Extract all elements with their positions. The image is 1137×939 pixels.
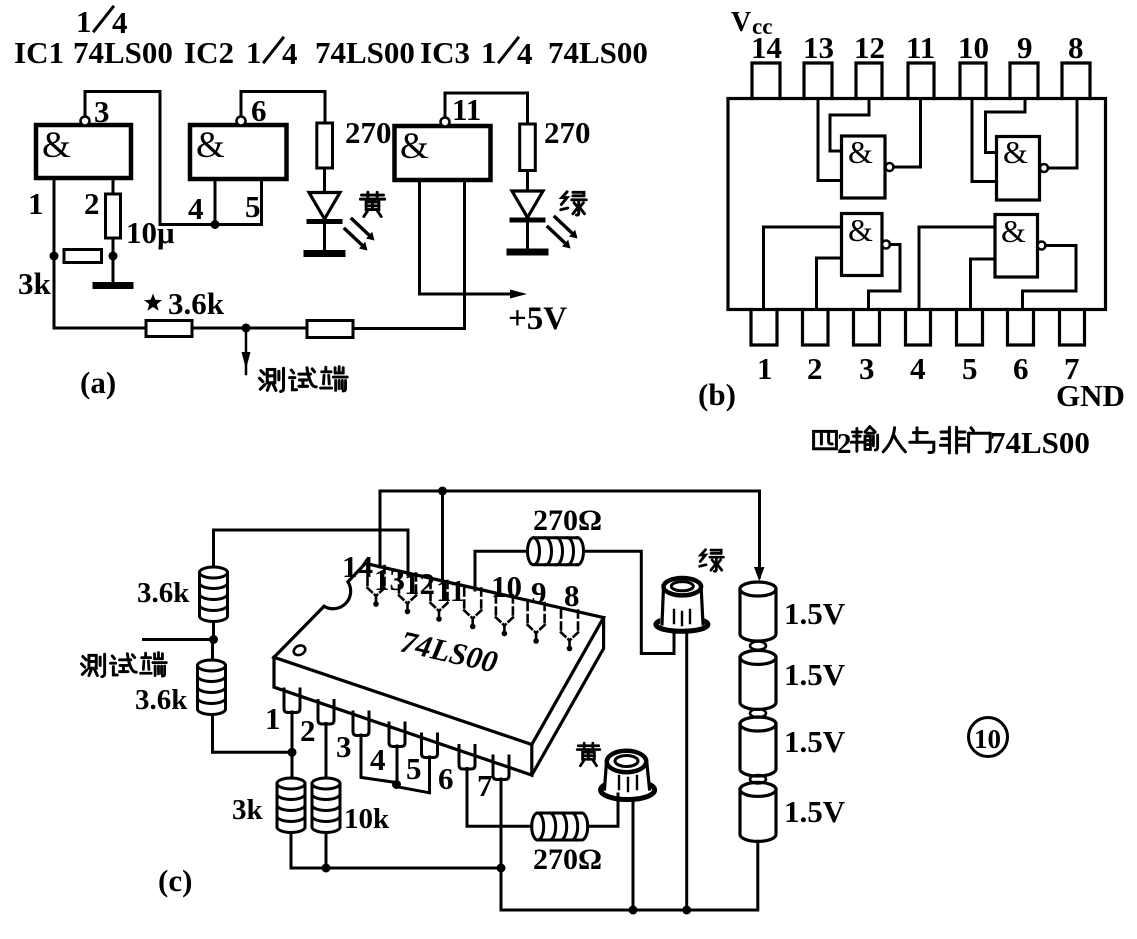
svg-text:2: 2: [807, 351, 823, 386]
svg-text:14: 14: [751, 30, 782, 65]
svg-text:V: V: [731, 7, 751, 38]
wire 270 to yellow LED: [588, 794, 618, 826]
svg-text:2: 2: [300, 713, 316, 748]
wire 270 to pin11: [475, 551, 528, 590]
svg-text:1: 1: [481, 35, 497, 70]
wire IC3 pin to +5V: [420, 180, 513, 294]
LED light arrows: [352, 219, 370, 236]
wire IC2 output pin6: [241, 92, 325, 124]
capacitor 10u body: [106, 194, 121, 238]
wire pin7 to ground bus: [500, 779, 503, 910]
label lv green: [561, 192, 587, 215]
wire pin9 in: [986, 99, 1026, 153]
wire IC3 output pin11: [445, 93, 528, 124]
wire pin2 in: [817, 258, 842, 310]
svg-text:&: &: [196, 125, 225, 166]
svg-text:(a): (a): [80, 365, 116, 400]
wire to pin13 from 3.6k: [214, 530, 409, 575]
svg-text:4: 4: [370, 742, 386, 777]
chip 74LS00 3D body: [274, 563, 604, 744]
svg-text:1.5V: 1.5V: [784, 794, 846, 829]
svg-text:GND: GND: [1056, 378, 1125, 413]
wire 270 to green LED: [584, 551, 674, 653]
node test terminal: [242, 324, 251, 333]
caption si 2 shuru yufeimen 74LS00: [814, 431, 837, 448]
wire pins 4,5 tied: [160, 179, 262, 225]
battery nubs: [750, 642, 766, 650]
pin 8 stub: [1062, 63, 1090, 99]
svg-text:3.6k: 3.6k: [135, 684, 188, 716]
wire pin1 IC1: [53, 178, 56, 328]
svg-text:1.5V: 1.5V: [784, 724, 846, 759]
svg-text:1: 1: [246, 35, 262, 70]
label huang yellow: [360, 192, 384, 216]
svg-text:2: 2: [84, 186, 100, 221]
LED light arrows: [555, 217, 573, 234]
svg-text:12: 12: [404, 566, 435, 601]
resistor 270ohm yellow branch: [532, 813, 588, 840]
svg-text:4: 4: [910, 351, 926, 386]
wire out to pin11: [894, 99, 921, 168]
bottom pin 6: [459, 746, 475, 770]
resistor 270ohm green branch: [528, 538, 584, 565]
bottom pin 4: [389, 723, 405, 747]
svg-text:8: 8: [1068, 30, 1084, 65]
svg-text:3.6k: 3.6k: [137, 577, 190, 609]
pin 10 stub: [960, 63, 986, 99]
pin 3 stub: [854, 310, 880, 346]
top pin 13: [399, 574, 416, 615]
svg-text:5: 5: [962, 351, 978, 386]
pin 5 stub: [957, 310, 983, 346]
pin 12 stub: [856, 63, 882, 99]
wire to pin12: [441, 491, 444, 582]
svg-text:270Ω: 270Ω: [533, 504, 602, 537]
svg-text:10k: 10k: [344, 803, 390, 835]
svg-text:1.5V: 1.5V: [784, 657, 846, 692]
wire pin1 in: [764, 227, 842, 310]
wire pin2 to 10k: [325, 724, 328, 779]
svg-text:270Ω: 270Ω: [533, 843, 602, 876]
gate IC2: [190, 125, 287, 179]
wire to IC3 pin: [353, 180, 465, 329]
svg-text:2: 2: [837, 428, 852, 460]
label lv green: [700, 550, 724, 572]
resistor 3.6k upper: [200, 567, 228, 622]
label ceshiduan (c): [81, 654, 104, 676]
svg-text:+5V: +5V: [508, 301, 567, 337]
svg-text:74LS00: 74LS00: [315, 35, 415, 70]
resistor 270 (yellow branch): [317, 123, 333, 168]
svg-text:11: 11: [906, 30, 935, 65]
wire out to pin3: [869, 245, 901, 310]
svg-text:6: 6: [251, 93, 267, 128]
svg-text:11: 11: [452, 92, 481, 127]
wire bottom rail: [54, 327, 146, 330]
svg-text:74LS00: 74LS00: [73, 35, 173, 70]
pin 4 stub: [906, 310, 931, 346]
svg-text:13: 13: [374, 562, 405, 597]
svg-text:74LS00: 74LS00: [990, 425, 1090, 460]
wire 3k/10k bottoms to bus: [291, 833, 501, 869]
svg-text:1.5V: 1.5V: [784, 596, 846, 631]
svg-text:3.6k: 3.6k: [168, 286, 225, 321]
svg-text:74LS00: 74LS00: [548, 35, 648, 70]
svg-text:1: 1: [76, 4, 92, 39]
wire pins 3-4-5 tied: [361, 735, 430, 793]
svg-text:3k: 3k: [18, 266, 52, 301]
wire to test node: [192, 327, 307, 330]
resistor 3k: [277, 778, 305, 833]
gate IC3: [395, 126, 491, 180]
svg-text:&: &: [848, 134, 873, 170]
wire out to pin8: [1048, 99, 1077, 169]
svg-text:5: 5: [245, 189, 261, 224]
wire pin4 in: [919, 227, 995, 310]
figure number 10 circled: [969, 718, 1008, 757]
LED green 3D: [656, 618, 708, 632]
top pin 8: [561, 611, 578, 652]
ground under green LED: [510, 249, 545, 256]
gate U1 (12,13 to 11): [842, 136, 886, 198]
chip pin1 dot o: [292, 644, 307, 657]
svg-text:3: 3: [336, 729, 352, 764]
svg-text:4: 4: [282, 36, 298, 71]
ground under yellow LED: [307, 250, 342, 257]
svg-text:7: 7: [477, 768, 493, 803]
svg-text:1: 1: [265, 701, 281, 736]
bottom pin 7: [493, 756, 509, 780]
svg-text:9: 9: [531, 575, 547, 610]
svg-text:10: 10: [958, 30, 989, 65]
wire pin2 IC1: [112, 178, 115, 194]
top pin 11: [464, 589, 481, 630]
wire IC1 output pin3 to top: [85, 92, 160, 225]
svg-text:1: 1: [28, 186, 44, 221]
battery cell 4: [740, 782, 776, 841]
svg-text:11: 11: [436, 573, 465, 608]
wire pin13 in: [818, 99, 842, 181]
pin 1 stub: [751, 310, 777, 346]
svg-text:(c): (c): [158, 863, 192, 898]
svg-text:&: &: [42, 125, 71, 166]
resistor 10k: [312, 778, 340, 833]
resistor 3.6k (starred): [146, 321, 192, 337]
svg-text:4: 4: [517, 36, 533, 71]
bubble IC3 out: [441, 118, 450, 127]
wire pin10 in: [972, 99, 997, 182]
node on top bus: [438, 487, 447, 496]
pin 9 stub: [1010, 63, 1038, 99]
label huang yellow: [577, 743, 600, 766]
battery cell 1: [740, 582, 776, 641]
svg-text:10μ: 10μ: [126, 215, 175, 250]
node junction right: [109, 252, 118, 261]
bottom pin 5: [422, 734, 438, 758]
LED yellow: [309, 193, 340, 220]
svg-text:(b): (b): [698, 377, 736, 412]
top pin 12: [431, 581, 448, 622]
svg-text:5: 5: [406, 751, 422, 786]
bottom pin 3: [353, 712, 369, 736]
svg-text:13: 13: [803, 30, 834, 65]
wire pin12 in: [830, 99, 869, 152]
ground under IC1: [112, 256, 115, 284]
top pin 14: [368, 566, 385, 607]
svg-text:IC3: IC3: [420, 35, 470, 70]
svg-text:270: 270: [544, 115, 591, 150]
svg-text:10: 10: [974, 724, 1001, 754]
bottom pin 2: [318, 701, 334, 725]
svg-text:&: &: [400, 126, 429, 167]
svg-text:&: &: [1001, 213, 1026, 249]
svg-text:74LS00: 74LS00: [397, 624, 501, 680]
svg-text:&: &: [1003, 134, 1028, 170]
pin 11 stub: [908, 63, 934, 99]
svg-text:14: 14: [342, 549, 373, 584]
svg-text:270: 270: [345, 115, 392, 150]
top pin 9: [528, 603, 545, 644]
wire battery bottom to ground bus: [501, 841, 758, 910]
svg-text:3: 3: [94, 94, 110, 129]
node junction left: [50, 252, 59, 261]
wire battery top lead: [758, 491, 761, 577]
label ceshiduan (a): [259, 368, 283, 391]
gate U3 (1,2 to 3): [842, 214, 883, 276]
svg-text:&: &: [848, 212, 873, 248]
IC body DIP14: [728, 99, 1106, 310]
pin 7 stub: [1060, 310, 1085, 346]
pin 6 stub: [1008, 310, 1034, 346]
gate U4 (4,5 to 6): [995, 215, 1038, 278]
bottom pin 1: [284, 689, 300, 713]
bubble IC1 out: [81, 117, 90, 126]
wire pin1 to 3k: [291, 712, 294, 778]
wire top bus: [380, 490, 760, 493]
wire pin6 to 270: [467, 769, 532, 827]
pin 13 stub: [804, 63, 832, 99]
svg-text:1: 1: [757, 351, 773, 386]
wire pin5 in: [971, 259, 996, 310]
LED green: [512, 191, 543, 218]
bubble IC2 out: [237, 117, 246, 126]
resistor 3.6k lower: [211, 640, 214, 661]
svg-text:6: 6: [1013, 351, 1029, 386]
svg-text:12: 12: [854, 30, 885, 65]
wire out to pin6: [1023, 246, 1077, 310]
battery cell 3: [740, 717, 776, 776]
arrow test terminal: [245, 328, 248, 374]
resistor unlabeled: [307, 321, 353, 338]
svg-text:4: 4: [188, 191, 204, 226]
svg-text:IC1: IC1: [14, 35, 64, 70]
LED yellow 3D: [601, 781, 655, 800]
star: [144, 294, 162, 311]
svg-text:IC2: IC2: [184, 35, 234, 70]
node test terminal (c): [144, 622, 214, 640]
gate U2 (9,10 to 8): [997, 137, 1040, 201]
gate IC1: [36, 125, 131, 178]
svg-text:10: 10: [491, 569, 522, 604]
pin 14 stub: [752, 63, 780, 99]
svg-text:8: 8: [564, 578, 580, 613]
wire 3.6k to pin1: [213, 715, 293, 753]
wire to pin14: [379, 491, 382, 567]
resistor 270 (green branch): [520, 124, 536, 171]
pin 2 stub: [803, 310, 829, 346]
resistor 3k horizontal: [64, 250, 102, 263]
svg-text:3k: 3k: [232, 794, 264, 826]
svg-text:3: 3: [859, 351, 875, 386]
battery cell 2: [740, 650, 776, 709]
top pin 10: [496, 596, 513, 637]
svg-text:6: 6: [438, 761, 454, 796]
svg-text:9: 9: [1017, 30, 1033, 65]
